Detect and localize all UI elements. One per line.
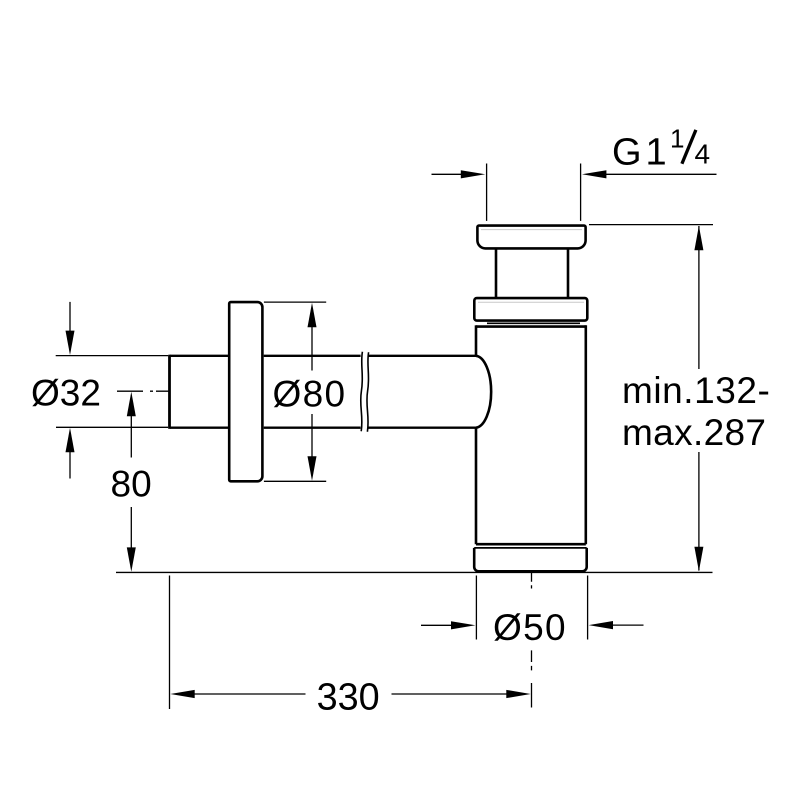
- inlet pipe bottom wall: [170, 427, 478, 429]
- svg-text:Ø32: Ø32: [31, 373, 101, 414]
- inlet pipe top wall: [170, 355, 478, 357]
- outlet flange chamfer hairline: [481, 229, 582, 231]
- Ø80 dimension: [264, 302, 326, 481]
- svg-text:min.132-: min.132-: [622, 370, 770, 411]
- G1 1/4 dimension: [432, 164, 717, 221]
- nut chamfer hairline: [478, 301, 584, 303]
- wall flange: [229, 302, 262, 481]
- svg-text:Ø50: Ø50: [493, 607, 567, 648]
- baseline: [116, 571, 713, 573]
- svg-text:80: 80: [111, 463, 152, 504]
- bottle centerline: [531, 572, 533, 589]
- 330 dimension: [169, 576, 171, 710]
- min/max dimension: [589, 224, 713, 226]
- svg-text:Ø80: Ø80: [273, 373, 347, 414]
- compression nut: [474, 298, 587, 321]
- gasket line: [487, 322, 580, 324]
- svg-text:G1: G1: [612, 131, 671, 173]
- Ø50 dimension: [421, 576, 644, 640]
- outlet neck: [495, 250, 498, 298]
- svg-text:330: 330: [317, 676, 380, 718]
- bottom cap: [474, 548, 587, 571]
- svg-text:1: 1: [670, 124, 684, 154]
- pipe break squiggle right: [367, 352, 369, 432]
- outlet flange: [477, 226, 585, 249]
- inlet dome: [476, 356, 491, 428]
- 80 dimension: [130, 413, 132, 458]
- pipe break squiggle left: [361, 352, 363, 432]
- bottle body: [476, 325, 586, 544]
- pipe centerline stub: [117, 390, 169, 392]
- svg-text:4: 4: [695, 139, 711, 170]
- svg-text:max.287: max.287: [622, 412, 766, 453]
- Ø32 dimension: [56, 302, 168, 479]
- inlet pipe left end: [168, 355, 171, 429]
